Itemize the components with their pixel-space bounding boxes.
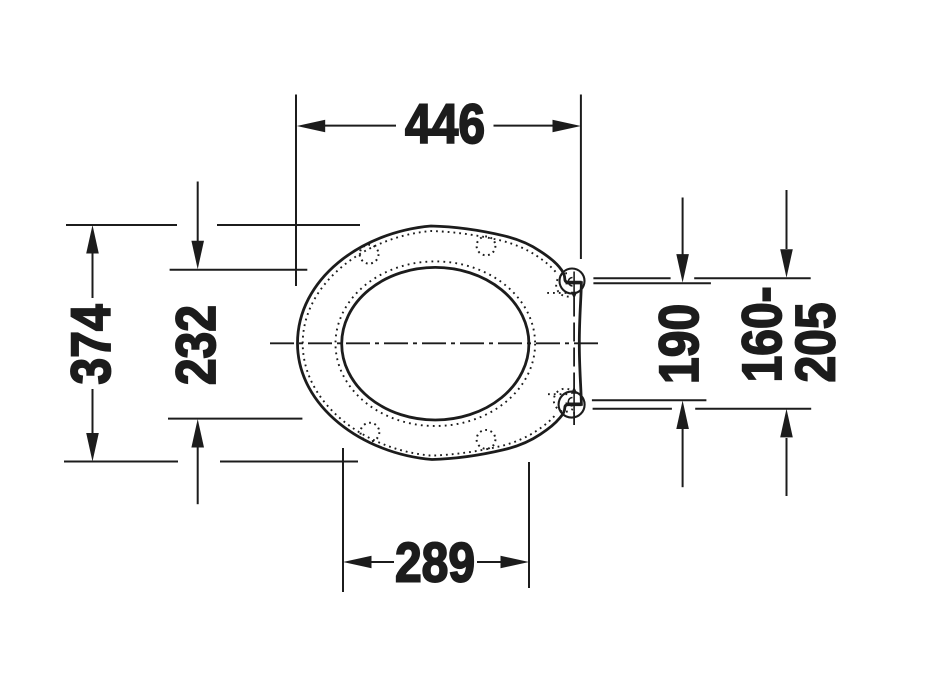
svg-text:446: 446 xyxy=(405,93,485,155)
svg-text:190: 190 xyxy=(648,304,710,384)
svg-text:232: 232 xyxy=(165,305,227,385)
svg-text:374: 374 xyxy=(60,304,122,384)
svg-text:205: 205 xyxy=(784,302,846,382)
svg-text:289: 289 xyxy=(395,531,475,593)
